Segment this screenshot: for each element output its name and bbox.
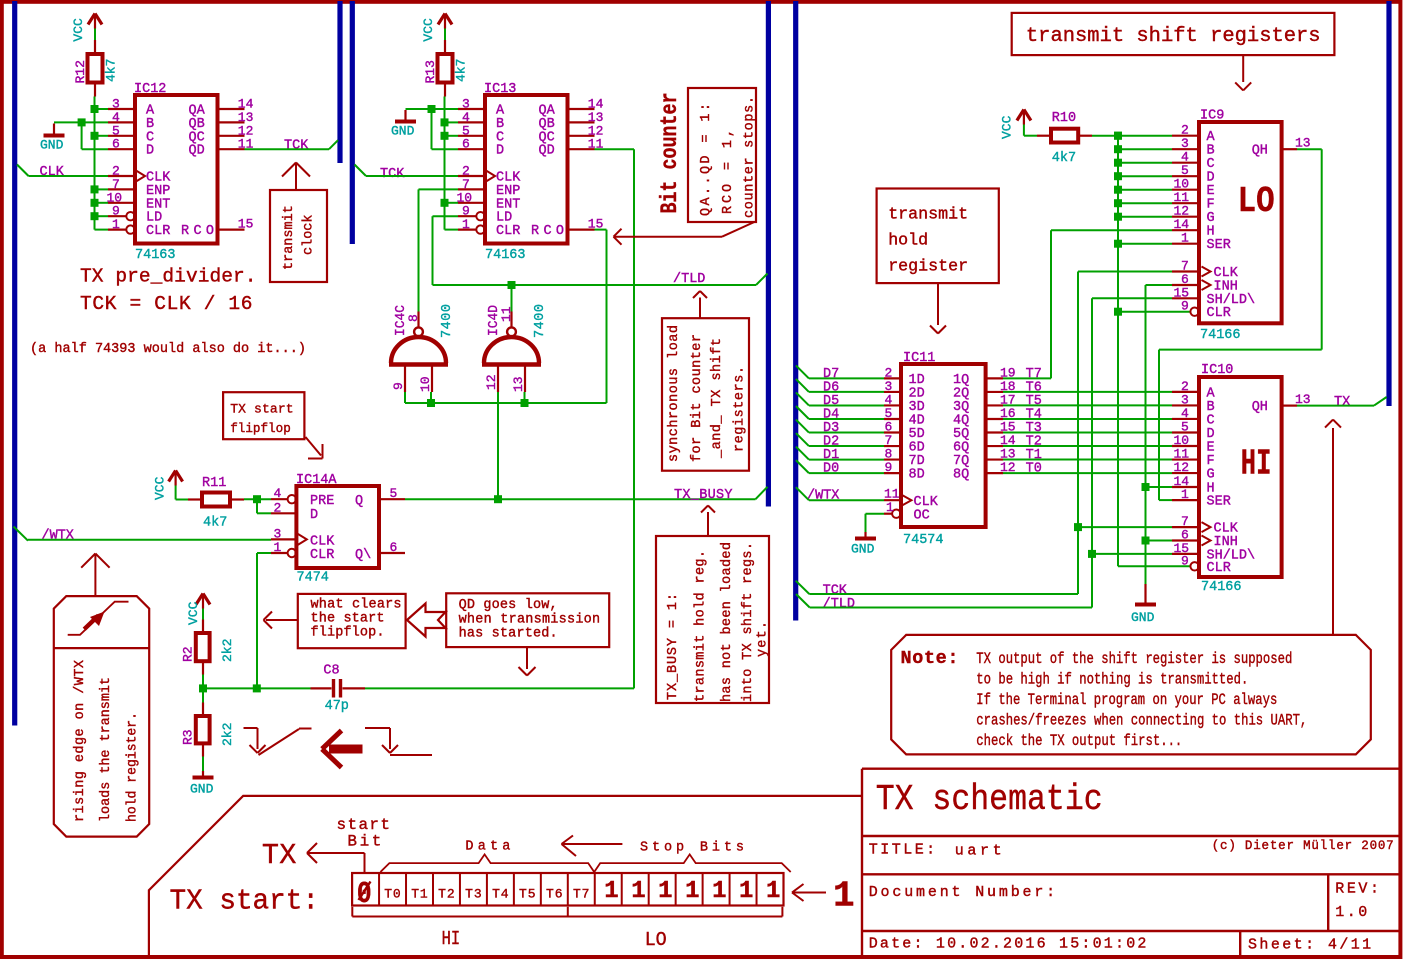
svg-text:transmit shift registers: transmit shift registers (1026, 25, 1321, 48)
callout box: TX_BUSY = 1 explanation (656, 536, 769, 703)
svg-text:Document Number:: Document Number: (869, 884, 1055, 901)
svg-text:Q: Q (355, 494, 363, 509)
svg-text:12: 12 (484, 374, 499, 390)
wire IC13 QD down to C8 node (595, 148, 635, 150)
bus: right bus (TX) (1386, 1, 1391, 406)
svg-text:IC10: IC10 (1201, 363, 1233, 378)
arrow from Stop Bits toward Data (562, 843, 623, 845)
ground (864, 532, 866, 538)
svg-text:D: D (310, 508, 318, 523)
IC4D input stubs (497, 365, 499, 393)
svg-text:Q\: Q\ (355, 548, 371, 563)
IC11 input D4 pin 5 from bus (796, 406, 809, 419)
svg-text:4: 4 (274, 486, 282, 501)
wire GND column (IC9 INH, IC10 H+INH) (1145, 285, 1147, 585)
HI LO bracket (352, 916, 782, 918)
svg-text:RCO = 1,: RCO = 1, (721, 129, 736, 214)
wire CLR row IC13 (445, 229, 459, 231)
svg-text:TITLE:: TITLE: (869, 842, 936, 859)
IC IC12 74163 counter body (135, 95, 218, 244)
svg-text:LO: LO (1238, 181, 1275, 222)
resistor R3 (196, 716, 210, 743)
svg-text:6: 6 (390, 540, 398, 555)
IC10 SER pin 1 (1172, 499, 1199, 501)
wire IC11 OC to GND (866, 513, 885, 515)
svg-text:CLR: CLR (1207, 306, 1231, 321)
svg-text:T6: T6 (546, 887, 563, 902)
svg-text:OC: OC (914, 509, 930, 524)
svg-text:T1: T1 (411, 887, 428, 902)
wire TCK from IC12 QD to bus (245, 148, 330, 150)
svg-text:HI: HI (442, 928, 461, 950)
bit cell row (352, 873, 783, 906)
bus: TCK bus segment A (top center-left) (337, 1, 342, 163)
IC IC10 74166 shift register HI body (1199, 377, 1282, 577)
wire CLK from left bus to IC12 (17, 165, 29, 177)
svg-text:VCC: VCC (421, 18, 436, 42)
arrow from QD box down to C8 wire (526, 647, 528, 669)
svg-text:RCO: RCO (181, 224, 214, 239)
NAND gate IC4C 7400 (pointing up) (389, 362, 448, 366)
leader arrow from TX start flipflop box (306, 437, 322, 456)
svg-text:C8: C8 (323, 664, 339, 679)
IC11 input D2 pin 7 from bus (796, 433, 809, 446)
svg-text:T4: T4 (492, 887, 509, 902)
IC11 input D5 pin 4 from bus (796, 392, 809, 405)
svg-text:2k2: 2k2 (220, 723, 235, 746)
svg-text:QD: QD (189, 144, 205, 159)
svg-text:Bit counter: Bit counter (657, 93, 683, 214)
IC14A PRE pin 4 (271, 498, 287, 500)
svg-text:Date: 10.02.2016 15:01:02: Date: 10.02.2016 15:01:02 (869, 936, 1147, 953)
wire IC14A Q to TX_BUSY bus (405, 498, 756, 500)
svg-text:VCC: VCC (71, 18, 86, 42)
svg-text:1: 1 (604, 878, 618, 905)
svg-text:T5: T5 (519, 887, 536, 902)
svg-text:TX start:: TX start: (170, 885, 320, 918)
IC9 input C pin 4 (1118, 162, 1172, 164)
svg-text:1: 1 (685, 878, 699, 905)
IC10 input E pin 10 (from IC11 5Q) (1003, 445, 1172, 447)
wire R12 to junction column (94, 97, 96, 230)
wire NAND input 10 (430, 392, 432, 403)
bus: center-left bus (TX_BUSY,/TLD) (766, 1, 771, 507)
svg-text:Bit: Bit (347, 833, 381, 851)
svg-text:D: D (496, 144, 504, 159)
svg-text:QD: QD (539, 144, 555, 159)
waveform glyph: bold left arrow (329, 745, 363, 754)
svg-text:8Q: 8Q (953, 468, 969, 483)
junction dots IC13 column (B,C,ENT) (441, 118, 449, 126)
svg-text:If the Terminal program on you: If the Terminal program on your PC alway… (976, 691, 1277, 709)
svg-text:IC4C: IC4C (394, 305, 409, 336)
IC9 input B pin 3 (1118, 148, 1172, 150)
arrow with 1 at right of cells (792, 892, 826, 894)
wire IC9 QH to IC10 SER (1297, 148, 1322, 150)
wire R13 to junction column IC13 (444, 97, 446, 230)
svg-text:T7: T7 (573, 887, 590, 902)
svg-text:RCO: RCO (531, 224, 564, 239)
svg-text:SER: SER (1207, 238, 1231, 253)
wire /TLD into bus (756, 274, 768, 286)
arrow from TX_BUSY box up to TX_BUSY wire (707, 512, 709, 536)
IC12 control pins (108, 175, 135, 177)
svg-text:clock: clock (302, 214, 317, 255)
IC10 input H pin 14 (grounded) (1146, 486, 1173, 488)
svg-text:9: 9 (1181, 553, 1189, 568)
resistor R10 (1051, 129, 1078, 143)
svg-text:1: 1 (766, 878, 780, 905)
svg-text:IC14A: IC14A (296, 473, 337, 488)
IC10 INH pin 6 (1146, 540, 1173, 542)
svg-text:QH: QH (1252, 144, 1268, 159)
svg-text:G: G (1207, 468, 1215, 483)
callout box: QD goes low, when transmission has started. (446, 593, 609, 647)
IC10 SH/LD pin 15 (1092, 553, 1172, 555)
svg-text:crashes/freezes when connectin: crashes/freezes when connecting to this … (976, 712, 1307, 730)
svg-text:1: 1 (833, 876, 855, 917)
wire VCC to R12 (94, 29, 96, 41)
arrow from synchronous load box up to /TLD wire (699, 298, 701, 319)
svg-text:9: 9 (391, 382, 406, 390)
IC9 input D pin 5 (1118, 175, 1172, 177)
svg-text:GND: GND (391, 124, 415, 139)
svg-text:1: 1 (462, 217, 470, 232)
svg-text:T3: T3 (465, 887, 482, 902)
svg-text:R2: R2 (181, 646, 196, 662)
callout box: rising edge on /WTX loads the transmit hold register. (54, 596, 149, 837)
IC9 input G pin 12 (1118, 216, 1172, 218)
svg-text:T0: T0 (384, 887, 401, 902)
svg-text:Stop Bits: Stop Bits (640, 841, 744, 856)
IC10 input D pin 5 (from IC11 4Q) (1003, 431, 1172, 433)
svg-text:TCK: TCK (284, 138, 309, 153)
IC11 input D1 pin 8 from bus (796, 447, 809, 460)
capacitor C8 (332, 679, 335, 698)
arrow from QA..QD box to RCO (722, 222, 755, 237)
svg-text:into TX shift regs.: into TX shift regs. (741, 542, 756, 702)
bus: TCK bus segment B (350, 1, 355, 244)
svg-text:_and_ TX shift: _and_ TX shift (710, 338, 725, 459)
svg-text:Sheet: 4/11: Sheet: 4/11 (1248, 937, 1371, 954)
svg-text:flipflop: flipflop (230, 421, 291, 436)
svg-text:R13: R13 (423, 60, 438, 83)
wire R11 to IC14A PRE and D (244, 498, 271, 500)
svg-text:10: 10 (418, 376, 433, 392)
ground (53, 124, 55, 135)
node GND tee for IC12 B,D pins (78, 118, 86, 126)
svg-text:6: 6 (462, 137, 470, 152)
callout box: transmit clock (270, 190, 327, 282)
resistor R2 (196, 633, 210, 661)
wire R10 to VCC junction column (1092, 135, 1118, 137)
svg-text:TX: TX (1334, 395, 1350, 410)
svg-text:IC9: IC9 (1200, 109, 1224, 124)
waveform glyph: falling edge (right) (365, 727, 390, 729)
svg-text:uart: uart (955, 843, 1002, 860)
svg-text:15: 15 (238, 217, 254, 232)
IC10 CLR pin 9 (1118, 565, 1190, 567)
wire C8 right to IC13-QD vertical (365, 687, 634, 689)
svg-text:GND: GND (40, 138, 64, 153)
wire VCC to R13 (444, 29, 446, 41)
IC10 CLK pin 7 (1078, 526, 1172, 528)
IC11 input D0 pin 9 from bus (796, 460, 809, 473)
bus: center-right bus (D0-D7,/WTX,TCK,/TLD) (793, 1, 798, 621)
svg-text:what clears: what clears (311, 597, 402, 612)
arrow from start Bit to TX (364, 853, 366, 872)
svg-text:synchronous load: synchronous load (667, 325, 682, 462)
arrow from shift registers box down to IC9 (1242, 55, 1244, 82)
IC11 input D3 pin 6 from bus (796, 420, 809, 433)
callout box: QA..QD = 1 / RCO = 1 / counter stops. (688, 88, 756, 222)
svg-text:D: D (146, 144, 154, 159)
ground (1144, 584, 1146, 604)
IC13 left pins A-D (458, 108, 485, 110)
svg-text:IC12: IC12 (134, 82, 166, 97)
IC13 control pins (458, 175, 485, 177)
svg-text:Data: Data (465, 840, 510, 855)
svg-text:VCC: VCC (153, 476, 168, 500)
wire T7 vertical (IC9 H) (1050, 230, 1052, 378)
wire /TLD vertical to IC9 SH/LD (1091, 298, 1093, 607)
svg-text:/WTX: /WTX (42, 529, 74, 544)
svg-text:74166: 74166 (1200, 328, 1241, 343)
IC12 clock wedge (136, 171, 145, 182)
svg-text:TX start: TX start (230, 402, 293, 417)
IC10 QH pin 13 output TX (1282, 405, 1297, 407)
svg-text:TCK: TCK (380, 167, 405, 182)
svg-text:start: start (337, 816, 391, 834)
svg-text:74574: 74574 (903, 533, 944, 548)
svg-text:CLR: CLR (310, 548, 334, 563)
IC12 right pins QA-QD (218, 108, 245, 110)
svg-text:loads the transmit: loads the transmit (99, 677, 114, 822)
IC10 input C pin 4 (from IC11 3Q) (1003, 418, 1172, 420)
svg-text:when transmission: when transmission (459, 612, 600, 627)
svg-text:GND: GND (190, 782, 214, 797)
svg-text:transmit: transmit (282, 205, 297, 270)
IC10 input G pin 12 (from IC11 7Q) (1003, 472, 1172, 474)
IC9 input E pin 10 (1118, 189, 1172, 191)
wire NAND input 9 (404, 392, 406, 403)
svg-text:flipflop.: flipflop. (311, 625, 385, 640)
svg-text:1: 1 (886, 500, 894, 515)
svg-text:counter stops.: counter stops. (743, 96, 758, 218)
svg-text:2: 2 (274, 500, 282, 515)
IC IC13 74163 counter body (485, 95, 568, 244)
callout box: transmit shift registers (1012, 13, 1335, 55)
IC11 input D7 pin 2 from bus (796, 365, 809, 378)
junction dots on C8 node (199, 684, 207, 692)
svg-text:/TLD: /TLD (673, 272, 705, 287)
svg-text:LO: LO (645, 929, 667, 951)
wire ENP to NAND IC4C output (419, 188, 459, 190)
arrow from hold register box down to IC11 (937, 283, 939, 325)
svg-text:1: 1 (658, 878, 672, 905)
svg-text:QD goes low,: QD goes low, (459, 598, 558, 613)
VCC power symbol (1017, 110, 1024, 121)
svg-text:check the TX output first...: check the TX output first... (976, 732, 1182, 750)
wire R2 to divider node (202, 675, 204, 689)
svg-text:R11: R11 (202, 476, 226, 491)
svg-text:TX_BUSY: TX_BUSY (674, 488, 733, 503)
arrow from rising-edge box up to /WTX wire (94, 554, 96, 597)
svg-text:9: 9 (1181, 299, 1189, 314)
svg-text:13: 13 (511, 376, 526, 392)
VCC power symbol (438, 14, 445, 25)
callout box: TX start flipflop (223, 392, 304, 439)
IC11 input D6 pin 3 from bus (796, 379, 809, 392)
svg-text:9: 9 (885, 460, 893, 475)
IC13 RCO pin 15 (568, 229, 595, 231)
VCC power symbol (88, 14, 95, 25)
svg-text:hold register.: hold register. (125, 712, 140, 822)
svg-text:the start: the start (311, 611, 385, 626)
svg-text:CLK: CLK (40, 165, 65, 180)
timing region outline (149, 796, 862, 955)
IC IC14A 7474 flip-flop body (296, 486, 379, 568)
wire TCK from bus to IC9/IC10 CLK column (796, 581, 810, 594)
svg-text:1: 1 (739, 878, 753, 905)
IC IC11 74574 transmit hold register body (901, 364, 986, 527)
svg-text:/WTX: /WTX (807, 489, 839, 504)
svg-text:1: 1 (1181, 231, 1189, 246)
IC9 SH/LD pin 15 (1092, 297, 1172, 299)
arrow left of what-clears box (266, 619, 298, 621)
svg-text:IC4D: IC4D (487, 305, 502, 336)
svg-text:12: 12 (1174, 460, 1190, 475)
wire CLR row IC12 (95, 229, 109, 231)
wire IC14A CLR down to C8 node (257, 552, 271, 554)
svg-text:7474: 7474 (297, 571, 329, 586)
svg-text:(c) Dieter Müller 2007: (c) Dieter Müller 2007 (1212, 839, 1394, 853)
svg-text:QH: QH (1252, 400, 1268, 415)
svg-text:CLR: CLR (1207, 561, 1231, 576)
svg-text:for Bit counter: for Bit counter (690, 334, 705, 462)
junction dots on R12 column (91, 105, 99, 113)
node GND tee IC13 A,D pins (428, 105, 436, 113)
svg-text:SER: SER (1207, 495, 1231, 510)
svg-text:HI: HI (1241, 444, 1272, 485)
VCC power symbol (196, 594, 203, 605)
svg-text:yet.: yet. (756, 621, 771, 657)
svg-text:has not been loaded: has not been loaded (720, 542, 735, 702)
svg-text:VCC: VCC (1000, 115, 1015, 139)
IC14A CLR pin 1 (271, 552, 287, 554)
svg-text:1.0: 1.0 (1335, 904, 1367, 921)
IC9 CLR pin 9 (1118, 311, 1190, 313)
note box outline (891, 635, 1371, 755)
IC13 clock wedge (486, 171, 495, 182)
svg-text:R3: R3 (181, 729, 196, 745)
wire stubs rows A,C,ENP,ENT,LD from column (95, 108, 109, 110)
IC9 SER pin 1 (1118, 243, 1172, 245)
wire /TLD from bus to SH/LD column (796, 594, 810, 608)
svg-text:(a half 74393 would also do it: (a half 74393 would also do it...) (30, 341, 306, 357)
wire LD to /TLD (433, 215, 459, 217)
svg-text:5: 5 (390, 486, 398, 501)
svg-text:2k2: 2k2 (220, 639, 235, 662)
svg-text:hold: hold (888, 232, 928, 251)
IC10 input B pin 3 (from IC11 2Q) (1003, 404, 1172, 406)
svg-text:GND: GND (851, 541, 875, 556)
wire /TLD horizontal (433, 284, 757, 286)
svg-text:IC11: IC11 (903, 351, 935, 366)
IC9 input F pin 11 (1118, 202, 1172, 204)
svg-text:rising edge on /WTX: rising edge on /WTX (73, 660, 88, 822)
wire NAND input 13 (524, 392, 526, 403)
bus: left vertical bus (CLK,/WTX) (12, 1, 17, 726)
IC14A CLK pin 3 (271, 538, 296, 540)
svg-text:TCK = CLK / 16: TCK = CLK / 16 (80, 293, 253, 315)
svg-text:T2: T2 (438, 887, 455, 902)
svg-text:D0: D0 (823, 462, 839, 477)
svg-text:CLR: CLR (496, 224, 520, 239)
IC13 right pins QA-QD (568, 108, 595, 110)
IC14A D pin 2 (271, 512, 296, 514)
waveform glyph: low pulse (left) (244, 727, 258, 729)
IC10 input F pin 11 (from IC11 6Q) (1003, 459, 1172, 461)
callout box: what clears the start flipflop. (298, 594, 406, 648)
svg-text:transmit: transmit (888, 206, 968, 225)
svg-text:T0: T0 (1026, 462, 1042, 477)
callout box: synchronous load for Bit counter and TX shift registers (662, 318, 749, 471)
IC9 QH pin 13 output (1282, 148, 1297, 150)
callout box: transmit hold register (877, 189, 999, 284)
IC11 OC pin 1 (884, 513, 892, 515)
wire NAND input 12 down to TX_BUSY (497, 392, 499, 499)
svg-text:/TLD: /TLD (823, 597, 855, 612)
svg-text:1: 1 (1181, 487, 1189, 502)
svg-text:TX output of the shift registe: TX output of the shift register is suppo… (976, 650, 1292, 668)
VCC power symbol (169, 471, 176, 482)
title block frame (861, 769, 863, 955)
svg-text:4k7: 4k7 (1052, 151, 1076, 166)
hollow arrow between QD box and what-clears box (407, 604, 446, 637)
IC12 RCO pin 15 (218, 229, 245, 231)
resistor R13 (438, 54, 453, 83)
wire divider node horizontal to C8 (203, 687, 311, 689)
svg-text:8D: 8D (909, 468, 925, 483)
arrow from transmit clock box to TCK wire (295, 163, 297, 191)
wire TCK from bus to IC13 CLK (355, 165, 367, 177)
svg-text:register: register (888, 257, 968, 276)
IC9 input A pin 2 (1118, 135, 1172, 137)
IC12 left pins A-D (108, 108, 135, 110)
resistor R11 (202, 493, 230, 507)
svg-text:R10: R10 (1052, 111, 1076, 126)
IC14A Q\ pin 6 (379, 552, 405, 554)
svg-text:REV:: REV: (1335, 881, 1379, 898)
svg-text:TX schematic: TX schematic (876, 779, 1103, 820)
ground (404, 110, 406, 121)
IC9 INH pin 6 (1146, 284, 1173, 286)
svg-text:TX: TX (262, 839, 297, 872)
IC IC9 74166 shift register LO body (1199, 122, 1282, 323)
IC10 input A pin 2 (from IC11 1Q) (1003, 391, 1172, 393)
svg-text:transmit hold reg.: transmit hold reg. (694, 550, 709, 702)
svg-text:IC13: IC13 (484, 82, 516, 97)
svg-text:Note:: Note: (901, 648, 959, 669)
svg-text:CLR: CLR (146, 224, 170, 239)
IC14A Q pin 5 (379, 498, 405, 500)
VCC junction column down to IC10 CLR (1117, 136, 1119, 567)
wire TCK vertical to IC9 CLK (1077, 272, 1079, 595)
svg-text:4k7: 4k7 (203, 516, 227, 531)
svg-text:1: 1 (631, 878, 645, 905)
wire TX to right bus (1297, 405, 1374, 407)
